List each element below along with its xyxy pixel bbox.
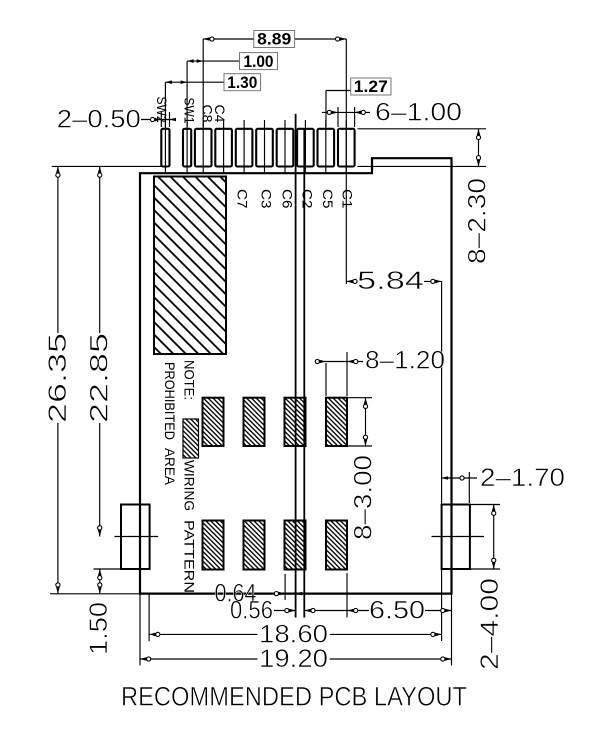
dimension 8-3.00 bottom arrow (364, 440, 368, 447)
dimension 5.84 line right segment (424, 280, 442, 282)
extension line SW1 centre up to 1.00 (186, 61, 188, 127)
dimension 22.85 top arrow (98, 166, 102, 173)
centre line of pad P1 (202, 120, 204, 174)
top solder pad P2 (1.00mm) (215, 129, 232, 167)
left foot horizontal centre line (22.85 reference) (115, 536, 159, 538)
svg-text:AREA: AREA (162, 448, 178, 486)
svg-text:PROHIBITED: PROHIBITED (162, 362, 178, 440)
extension line C8 centre up to 8.89 (202, 39, 204, 127)
pad-top extension line to the right (8-2.30 upper ref) (358, 128, 487, 130)
dimension 18.60 line left segment (149, 633, 257, 635)
extension line 8-1.20 left (col4 left edge up) (325, 363, 327, 396)
extension line C1 centre extended down to 5.84 (345, 39, 347, 284)
dimension 8-2.30 line (478, 129, 480, 167)
top solder pad P6 (1.00mm) (297, 129, 314, 167)
extension line body left edge down to 19.20 (139, 594, 141, 666)
svg-text:WIRING: WIRING (182, 460, 198, 511)
svg-text:2–4.00: 2–4.00 (476, 578, 504, 670)
svg-text:C4: C4 (212, 105, 227, 124)
wiring pattern pad row1 col3 (hatched) (285, 398, 306, 446)
svg-text:1.50: 1.50 (85, 602, 113, 655)
dimension 26.35 line lower segment (57, 423, 59, 594)
pad-bottom extension line to the right (8-2.30 lower ref) (358, 165, 487, 167)
top solder pad P1 (1.00mm) (195, 129, 212, 167)
top solder pad P5 (1.00mm) (277, 129, 294, 167)
svg-text:8–1.20: 8–1.20 (365, 347, 445, 375)
centre line of pad SW2 (164, 120, 166, 174)
svg-text:2–0.50: 2–0.50 (57, 105, 141, 133)
connector body outline (recommended PCB land pattern boundary) (140, 158, 452, 593)
svg-text:5.84: 5.84 (357, 267, 424, 295)
centre line of pad P4 (264, 120, 266, 174)
dimension 0.56 right arrow (304, 609, 311, 613)
dimension 8-3.00 top arrow (364, 398, 368, 405)
centre line of pad P6 (304, 120, 306, 174)
dimension 1.30 arrows (165, 80, 172, 84)
dimension 19.20 left arrow (140, 657, 147, 661)
svg-text:RECOMMENDED PCB LAYOUT: RECOMMENDED PCB LAYOUT (121, 682, 467, 712)
dimension 1.50 top arrow (98, 569, 102, 576)
dimension 1.00 arrows (187, 59, 194, 63)
dimension 2-1.70 arrow (442, 476, 449, 480)
dimension 2-4.00 bottom arrow (492, 563, 496, 570)
wiring pattern pad row2 col2 (hatched) (244, 521, 265, 570)
extension line middle pad col4 right edge down (6.50/0.56) (346, 573, 348, 618)
centre line of pad P7 (325, 120, 327, 174)
svg-text:1.30: 1.30 (227, 73, 257, 92)
svg-text:PATTERN: PATTERN (182, 520, 198, 593)
dimension 18.60 line right segment (330, 633, 442, 635)
basic dimension box 1.27 (351, 78, 391, 95)
right mounting foot pad (442, 505, 470, 570)
svg-text:6–1.00: 6–1.00 (375, 98, 462, 126)
extension line x=149.1 down to 18.60 (148, 594, 150, 641)
svg-text:19.20: 19.20 (259, 645, 328, 673)
top solder pad P8 (1.00mm) (338, 129, 355, 167)
dimension 26.35 bottom arrow (56, 587, 60, 594)
centre line of pad P3 (243, 120, 245, 174)
dimension 1.00 line (187, 60, 239, 62)
dimension 8.89 line right segment (295, 38, 347, 40)
wiring pattern pad row2 col1 (hatched) (203, 521, 224, 570)
dimension 6.50 left arrow (347, 609, 354, 613)
dimension 22.85 bottom arrow (98, 530, 102, 537)
top-left extension line at pad bottom level (52, 165, 167, 167)
basic dimension box 1.00 (240, 53, 278, 70)
dimension 8.89 line left segment (203, 38, 254, 40)
dimension 2-4.00 line (493, 505, 495, 570)
svg-text:C3: C3 (259, 189, 274, 209)
centre line of pad P5 (284, 120, 286, 174)
dimension 22.85 line upper segment (99, 166, 101, 333)
dimension 19.20 line right segment (330, 658, 452, 660)
dimension 26.35 line upper segment (57, 166, 59, 333)
dimension 6.50 right arrow (445, 609, 452, 613)
dimension 6-1.00 right arrow (355, 111, 362, 115)
extension line SW2 centre up to 1.30 (164, 82, 166, 127)
wiring pattern pad row1 col2 (hatched) (244, 398, 265, 446)
extension line pad P8 right edge (6-1.00) (354, 107, 356, 127)
svg-text:C5: C5 (320, 189, 335, 209)
dimension 2-0.50 right arrow (170, 118, 177, 122)
extension lines 8-3.00 (col4 top/bottom to the right) (348, 397, 372, 399)
dimension 26.35 top arrow (56, 166, 60, 173)
svg-text:22.85: 22.85 (86, 333, 114, 423)
dimension 1.50 bottom arrow (98, 587, 102, 594)
dimension 19.20 right arrow (445, 657, 452, 661)
right foot horizontal centre line (432, 536, 485, 538)
top solder pad pad SW2 (161, 129, 169, 167)
svg-text:NOTE:: NOTE: (182, 360, 198, 400)
top solder pad P4 (1.00mm) (256, 129, 273, 167)
centre line of pad P2 (223, 120, 225, 174)
extension line pad P8 left edge (6-1.00) (337, 107, 339, 127)
svg-text:SW2: SW2 (154, 97, 169, 123)
dimension 2-1.70 line (442, 477, 477, 479)
dimension 2-0.50 line (141, 119, 176, 121)
extension lines 2-4.00 (right foot top/bottom) (470, 504, 500, 506)
svg-text:8–2.30: 8–2.30 (464, 178, 492, 264)
basic dimension box 1.30 (224, 74, 261, 91)
svg-text:1.00: 1.00 (244, 52, 274, 71)
svg-text:2–1.70: 2–1.70 (480, 464, 565, 492)
dimension 8-1.20 left arrow (320, 360, 327, 364)
dimension 2-0.50 left arrow (155, 118, 162, 122)
dimension 0.56 left line (274, 610, 296, 612)
extension line from 5.84 down through right foot to 18.60 (441, 281, 443, 641)
svg-text:C7: C7 (235, 189, 250, 209)
wiring pattern pad row2 col4 (hatched) (326, 521, 347, 570)
dimension 0.56 left arrow (289, 609, 296, 613)
top solder pad pad SW1 (183, 129, 191, 167)
dimension 8-3.00 line (365, 398, 367, 446)
top solder pad P7 (1.00mm) (318, 129, 335, 167)
dimension 8-1.20 right arrow (347, 360, 354, 364)
svg-text:C2: C2 (300, 189, 315, 209)
wiring pattern pad row1 col1 (hatched) (203, 398, 224, 446)
centre line of pad P8 (345, 120, 347, 174)
dimension 5.84 right arrow (435, 280, 442, 284)
top solder pad P3 (1.00mm) (236, 129, 253, 167)
dimension 8.89 right arrow (340, 37, 347, 41)
long vertical line (card switch trace) left (295, 114, 297, 618)
dimension 8-2.30 top arrow (477, 129, 481, 136)
basic dimension box 8.89 (254, 31, 295, 48)
dimension 18.60 left arrow (149, 633, 156, 637)
svg-text:1.27: 1.27 (354, 77, 388, 96)
dimension 18.60 right arrow (435, 633, 442, 637)
dimension 2-4.00 top arrow (492, 505, 496, 512)
extension line pad SW2 left edge (2-0.50) (160, 112, 162, 127)
svg-text:8.89: 8.89 (257, 30, 291, 49)
prohibited area (hatched keep-out region) (154, 177, 226, 355)
extension line middle pad col3 left edge down (284, 574, 286, 600)
dimension 5.84 line left segment (346, 280, 357, 282)
dimension 1.30 line (165, 81, 224, 83)
legend hatch swatch (183, 419, 199, 458)
dimension 8.89 left arrow (203, 37, 210, 41)
svg-text:26.35: 26.35 (44, 333, 72, 423)
svg-text:SW1: SW1 (182, 98, 197, 124)
svg-text:C1: C1 (340, 189, 355, 209)
centre line of pad SW1 (186, 120, 188, 174)
extension line 2-1.70 right (foot right edge) (468, 472, 470, 503)
extension line left foot bottom extended left (1.50 upper ref) (94, 568, 123, 570)
dimension 6-1.00 line (322, 111, 370, 113)
dimension 6-1.00 left arrow (332, 111, 339, 115)
extension line body bottom extended left (26.35 lower ref) (50, 593, 140, 595)
svg-text:6.50: 6.50 (369, 596, 425, 624)
wiring pattern pad row2 col3 (hatched) (285, 521, 306, 570)
dimension 6.50 line right segment (425, 610, 452, 612)
dimension 0.64 line+arrows (262, 593, 285, 595)
dimension 1.27 connector line (326, 90, 351, 92)
dimension 5.84 left arrow (346, 280, 353, 284)
dimension 0.56 right line (304, 610, 347, 612)
extension line pad SW2 right edge (2-0.50) (169, 112, 171, 127)
extension line body right edge down to 19.20 (451, 594, 453, 666)
svg-text:8–3.00: 8–3.00 (350, 455, 378, 540)
dimension 22.85 line lower segment (99, 423, 101, 537)
left mounting foot pad (121, 505, 150, 570)
wiring pattern pad row1 col4 (hatched) (326, 398, 347, 446)
dimension 1.50 line (99, 569, 101, 594)
extension line x=326 (1.27/left of 8-1.20 top) (325, 91, 327, 128)
long vertical line (card switch trace) right (303, 129, 305, 618)
dimension 8-2.30 bottom arrow (477, 160, 481, 167)
dimension 8-1.20 line (317, 361, 363, 363)
dimension 19.20 line left segment (140, 658, 257, 660)
svg-text:C6: C6 (280, 189, 295, 209)
dimension 6.50 line left segment (347, 610, 369, 612)
extension line 8-1.20 right (col4 right edge up) (346, 352, 348, 396)
